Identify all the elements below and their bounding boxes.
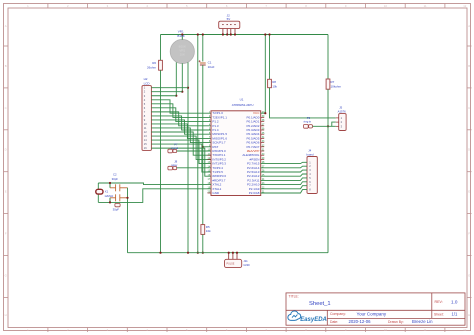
J11 pin stubs: [229, 253, 237, 260]
junction J2 pin2 on 5V rail: [226, 33, 228, 35]
wire H2 pin4 to U1: [151, 100, 211, 113]
wire GND bottom rail: [128, 252, 329, 254]
capacitor C2 30pF: [110, 184, 128, 191]
svg-text:C2: C2: [113, 173, 117, 177]
svg-text:Company:: Company:: [330, 312, 346, 316]
frame row tick marks right: [467, 46, 472, 297]
svg-text:C: C: [468, 106, 470, 110]
wire U1 VCC to 5V: [261, 35, 266, 114]
svg-text:ring in: ring in: [304, 120, 312, 124]
junction R6 line on GND rail: [159, 252, 161, 254]
J5 pin numbers: [341, 116, 343, 128]
svg-text:Breeze Lin: Breeze Lin: [412, 319, 433, 324]
wire R7 to GND rail corner: [327, 89, 329, 253]
connector J11 pulse: [225, 259, 242, 267]
svg-text:D: D: [468, 148, 470, 152]
wire H2 pin6 to U1: [151, 108, 211, 122]
svg-text:30pF: 30pF: [112, 177, 119, 181]
junction VCC vertical on 5V rail: [264, 33, 266, 35]
IC U1 AT89S052-24PU: [211, 111, 261, 196]
svg-text:GND: GND: [212, 191, 220, 195]
wire H2 pin1 VSS: [151, 87, 188, 89]
svg-text:A: A: [468, 24, 470, 28]
wire H2 pin9 to U1: [151, 120, 211, 134]
svg-text:X1: X1: [105, 189, 109, 193]
wire U1 P2.0 to J4 pin8: [261, 190, 307, 193]
frame column tick marks bottom: [48, 328, 445, 333]
EasyEDA logo: [288, 311, 327, 323]
junction x198 on GND rail: [197, 252, 199, 254]
svg-text:10k: 10k: [272, 84, 277, 88]
wire P9 to J5 pin3: [313, 125, 336, 127]
svg-text:Date:: Date:: [330, 320, 338, 324]
wire U1 P2.7 to J4 pin1: [261, 162, 307, 163]
resistor R5: [201, 225, 205, 235]
svg-text:B10K: B10K: [177, 34, 184, 38]
svg-text:D: D: [5, 148, 7, 152]
svg-text:board: board: [306, 152, 314, 156]
wire RST node to U1 RST: [203, 146, 211, 148]
potentiometer VR1 body: [170, 39, 194, 63]
connector J2 pin stubs: [223, 29, 235, 35]
wire VR1 leg3 to GND rail: [187, 62, 189, 252]
svg-text:12: 12: [463, 328, 467, 332]
junction J2 pin4 on 5V rail: [234, 33, 236, 35]
U1 right pin name labels: [242, 111, 260, 195]
wire H2 pin13 to U1: [151, 136, 211, 159]
wire H2 pin7 to U1: [151, 112, 211, 126]
svg-text:GND: GND: [243, 263, 249, 267]
wire 5V to R8: [269, 35, 271, 80]
svg-text:10uF: 10uF: [208, 65, 215, 69]
svg-text:P2.0/A8: P2.0/A8: [249, 191, 260, 195]
svg-text:F: F: [5, 232, 7, 236]
resistor R8: [268, 79, 272, 87]
svg-text:G: G: [468, 273, 470, 277]
junction x198 on 5V rail: [197, 33, 199, 35]
svg-text:PULSE: PULSE: [227, 263, 235, 266]
wire R6 to GND rail: [160, 70, 162, 253]
svg-text:G: G: [5, 273, 7, 277]
wire H2 pin11 to U1: [151, 128, 211, 143]
junction J11 pin3 on GND rail: [236, 252, 238, 254]
wire U1 P2.1 to J4 pin7: [261, 186, 307, 189]
U1 left pin numbers: [208, 111, 211, 194]
wire H2 pin16 to U1: [151, 148, 211, 176]
svg-text:U1: U1: [240, 98, 244, 102]
svg-text:F: F: [468, 232, 470, 236]
svg-text:10: 10: [384, 328, 388, 332]
wire H2 pin2 VCC: [151, 91, 182, 93]
wire 5V rail to R6: [160, 35, 162, 61]
junction at U1 VCC pin: [264, 112, 266, 114]
svg-text:A: A: [5, 24, 7, 28]
junction C3 right on GND vertical: [126, 197, 128, 199]
wire VR1 leg1: [175, 62, 177, 95]
wire C3 left stub: [109, 198, 111, 203]
svg-text:26ohm: 26ohm: [147, 66, 157, 70]
wire U1 P2.4 to J4 pin4: [261, 174, 307, 176]
svg-text:EasyEDA: EasyEDA: [300, 317, 327, 323]
svg-text:B: B: [5, 64, 7, 68]
junction RST node: [202, 146, 204, 148]
svg-text:AT89S052-24PU: AT89S052-24PU: [232, 103, 254, 107]
junction C3 stub on XTAL1 node: [109, 201, 111, 203]
net port P9 ring in: [304, 124, 313, 128]
junction VR1 leg2 H2 pin2: [181, 91, 183, 93]
wire 5V rail to C1: [202, 35, 204, 62]
wire U1 P2.3 to J4 pin5: [261, 178, 307, 181]
svg-text:1/1: 1/1: [452, 312, 458, 317]
junction J5 vertical on 5V rail: [268, 33, 270, 35]
wire XTAL2 node: [98, 183, 211, 185]
wire R8 to J5 pin1: [270, 88, 336, 118]
svg-text:11: 11: [424, 328, 427, 332]
wire H2 pin3 VO: [151, 95, 176, 97]
U1 unconnected pin stubs: [208, 117, 265, 193]
svg-text:A1576: A1576: [338, 109, 347, 113]
svg-text:10: 10: [384, 4, 388, 8]
junction VR1 top on 5V rail: [181, 33, 183, 35]
resistor R7: [326, 79, 330, 89]
svg-text:12MHz: 12MHz: [104, 194, 113, 198]
junction VR1 leg3 on GND rail: [187, 252, 189, 254]
junction J11 pin1 on GND rail: [228, 252, 230, 254]
junction C2 stub on XTAL2 node: [109, 182, 111, 184]
junction R7 line with ring-in wire: [327, 125, 329, 127]
wire VR1 leg2: [181, 63, 183, 91]
wire crystal left vertical: [97, 183, 99, 202]
wire U1 P2.5 to J4 pin3: [261, 170, 307, 172]
wire H2 pin5 to U1: [151, 104, 211, 118]
wire 5V rail corner to R7: [327, 35, 329, 80]
wire H2 pin10 to U1: [151, 124, 211, 138]
svg-text:Your Company: Your Company: [357, 311, 387, 316]
svg-text:10K: 10K: [180, 53, 185, 57]
svg-text:10kohm: 10kohm: [331, 84, 342, 88]
svg-text:B: B: [468, 64, 470, 68]
wire H2 pin15 to U1: [151, 144, 211, 172]
U1 right pin numbers: [262, 111, 265, 194]
C3 designator box: [115, 203, 120, 206]
svg-text:30pF: 30pF: [113, 208, 120, 212]
svg-text:12: 12: [463, 4, 467, 8]
crystal X1 12MHz: [96, 189, 103, 194]
svg-text:H: H: [5, 313, 7, 317]
wire J8 to U1 T0: [177, 167, 211, 169]
junction C1 line on 5V rail: [202, 33, 204, 35]
svg-text:10k: 10k: [206, 229, 211, 233]
U1 left pin name labels: [212, 111, 227, 195]
junction VR1 leg3 H2 pin1: [187, 87, 189, 89]
svg-text:2020-12-06: 2020-12-06: [349, 319, 372, 324]
wire J5 pin2 jog: [332, 122, 336, 126]
capacitor C3 30pF: [110, 194, 128, 201]
net port P7 signal: [168, 149, 177, 153]
connector J2 5V: [219, 21, 240, 28]
wire R5 to GND rail: [202, 234, 204, 252]
wire VR1 top to 5V rail: [181, 35, 183, 40]
wire H2 pin14 to U1: [151, 140, 211, 164]
svg-text:Sheet:: Sheet:: [434, 313, 444, 317]
wire P7 to U1 RXD: [177, 150, 211, 152]
connector H2 LCD 16-pin header: [142, 86, 151, 151]
svg-text:5V: 5V: [227, 17, 231, 21]
J4 pin numbers: [309, 160, 311, 191]
net port J8 relay: [168, 166, 177, 170]
wire H2 pin12 to U1: [151, 132, 211, 155]
J5 pin stubs: [336, 118, 339, 126]
junction VR1 leg1 H2 pin3: [175, 95, 177, 97]
svg-text:relay: relay: [171, 163, 178, 167]
frame row tick marks left: [4, 46, 9, 297]
svg-text:REV:: REV:: [435, 300, 443, 304]
frame column tick marks top: [48, 4, 445, 9]
wire caps to GND rail: [127, 188, 129, 253]
wire U1 P2.2 to J4 pin6: [261, 182, 307, 185]
svg-text:1.0: 1.0: [451, 299, 458, 304]
title block: [286, 293, 465, 325]
svg-text:LCD: LCD: [144, 81, 151, 85]
wire C1 to RST node: [202, 65, 204, 225]
svg-text:TITLE:: TITLE:: [289, 295, 299, 299]
svg-text:E: E: [468, 190, 470, 194]
svg-text:E: E: [5, 190, 7, 194]
junction J2 pin1 on 5V rail: [222, 33, 224, 35]
wire 5V drop x198: [197, 35, 199, 253]
svg-text:C: C: [5, 106, 7, 110]
wire XTAL1 node: [98, 189, 211, 203]
svg-text:R6: R6: [152, 61, 156, 65]
svg-text:Sheet_1: Sheet_1: [309, 301, 331, 307]
connector J4 board 8-pin header: [307, 157, 317, 194]
svg-text:11: 11: [424, 4, 427, 8]
wire U1 P2.6 to J4 pin2: [261, 166, 307, 168]
wire 5V top rail: [161, 34, 329, 36]
wire H2 pin8 to U1: [151, 116, 211, 130]
connector J5 A1576: [339, 114, 346, 131]
svg-text:R7: R7: [331, 80, 335, 84]
svg-text:H: H: [468, 313, 470, 317]
H2 pin numbers: [144, 86, 147, 150]
junction J2 pin3 on 5V rail: [230, 33, 232, 35]
wire C2 left stub: [109, 183, 111, 188]
capacitor C1 10uF polarized: [200, 63, 206, 65]
svg-text:Drawn By:: Drawn By:: [388, 320, 404, 324]
svg-text:signal: signal: [171, 146, 179, 150]
junction J11 pin2 on GND rail: [232, 252, 234, 254]
junction R5 on GND rail: [202, 252, 204, 254]
resistor R6: [159, 60, 163, 70]
